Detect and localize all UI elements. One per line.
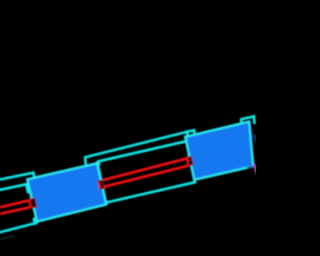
wire faint B.CrtYd line bottom-left xyxy=(0,236,14,239)
node R3 courtyard top tab xyxy=(241,116,254,125)
node R2 inner outline top xyxy=(99,141,187,161)
track T1 outline bottom xyxy=(0,207,30,214)
track T1 end cap xyxy=(29,198,36,207)
track T1 outline top xyxy=(0,200,30,207)
node R1 inner outline bottom xyxy=(0,223,37,233)
node R2 inner outline left stub xyxy=(97,161,100,164)
wire B2 bottom edge dim overlay xyxy=(247,166,254,168)
track T3 B.Cu dark segment xyxy=(254,135,257,144)
track T3 magenta B.SilkS streak xyxy=(254,164,257,175)
track T2 outline top xyxy=(103,158,188,180)
track T2 outline bottom xyxy=(104,166,189,187)
node R2 courtyard right stub xyxy=(186,131,189,135)
node R2 inner outline left edge xyxy=(97,162,106,202)
track T2 right end cap xyxy=(186,157,193,166)
track T2 left end cap xyxy=(98,180,105,189)
node R1 inner outline top xyxy=(0,184,28,192)
node R1 courtyard top line xyxy=(0,173,34,180)
node R1 inner outline right stub xyxy=(34,219,35,224)
node R2 courtyard top line xyxy=(85,130,194,166)
node R2 inner outline bottom xyxy=(106,182,195,202)
pad P2 (right blue pad) xyxy=(185,122,253,180)
pad P1 (left blue pad) xyxy=(27,163,106,222)
